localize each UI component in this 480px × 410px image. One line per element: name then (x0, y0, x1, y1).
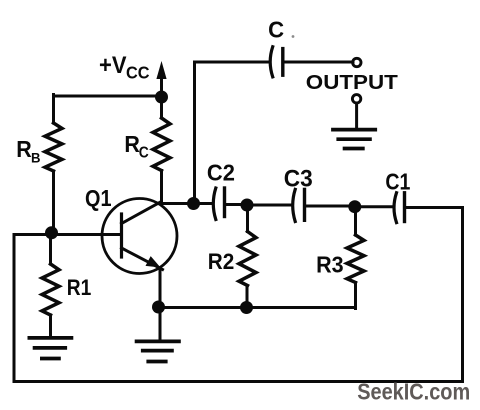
svg-text:R: R (16, 136, 32, 162)
svg-text:C: C (139, 145, 149, 162)
svg-text:B: B (31, 150, 41, 166)
svg-text:C2: C2 (207, 160, 235, 186)
svg-text:OUTPUT: OUTPUT (306, 71, 399, 94)
svg-text:C3: C3 (284, 165, 313, 192)
svg-text:R2: R2 (208, 249, 235, 274)
svg-text:C: C (268, 17, 284, 43)
svg-text:CC: CC (126, 63, 150, 83)
svg-text:R1: R1 (67, 275, 92, 300)
svg-text:Q1: Q1 (85, 185, 112, 211)
svg-text:SeekIC.com: SeekIC.com (357, 379, 470, 405)
svg-text:R3: R3 (316, 252, 344, 278)
svg-text:+V: +V (99, 52, 127, 79)
svg-text:C1: C1 (385, 169, 410, 195)
